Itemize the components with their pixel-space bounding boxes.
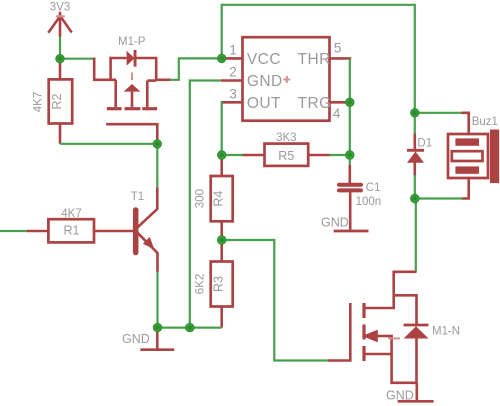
svg-text:300: 300: [195, 189, 207, 208]
resistor R4: [195, 155, 233, 240]
svg-text:100n: 100n: [356, 196, 382, 208]
node OUT-R4-R5 junction: [218, 151, 226, 159]
svg-text:4K7: 4K7: [33, 92, 45, 112]
gate bar: [106, 124, 157, 144]
resistor R2: [33, 59, 73, 144]
svg-text:M1-P: M1-P: [118, 36, 146, 48]
ground for M1-N: [386, 389, 434, 403]
wire OUT pin3 down: [220, 102, 223, 155]
drain path: [365, 272, 416, 308]
wire top rail VCC: [222, 5, 415, 113]
svg-text:C1: C1: [366, 182, 381, 194]
wire M1-P source elbow (red): [94, 58, 116, 80]
node A junction: [56, 55, 64, 63]
svg-text:TRG: TRG: [298, 95, 332, 112]
svg-text:D1: D1: [417, 137, 432, 149]
IC timer box: [221, 37, 351, 121]
svg-text:1: 1: [229, 43, 237, 58]
node D1 top junction: [411, 109, 419, 117]
wire R5 left: [222, 154, 243, 156]
wire bottom rail: [158, 327, 222, 329]
svg-text:4K7: 4K7: [61, 208, 81, 220]
svg-text:4: 4: [333, 106, 341, 121]
node D1 bottom junction: [411, 194, 419, 202]
gate bar: [328, 303, 351, 361]
supply 3V3 symbol: [48, 1, 71, 36]
svg-text:5: 5: [334, 41, 342, 56]
svg-text:6K2: 6K2: [195, 274, 207, 294]
svg-text:R5: R5: [278, 149, 294, 163]
svg-text:R4: R4: [211, 191, 225, 207]
diode D1: [407, 113, 432, 199]
pin 3: [221, 101, 243, 104]
buzzer Buz1: [415, 113, 499, 199]
channel plates: [362, 303, 365, 361]
svg-text:M1-N: M1-N: [432, 326, 460, 338]
svg-text:GND: GND: [122, 332, 150, 346]
wire T1 emitter to bottom rail: [156, 272, 158, 328]
svg-text:3: 3: [229, 86, 237, 101]
resistor R5: [243, 132, 330, 166]
wire 3V3 to node A: [59, 37, 61, 59]
node emitter-ground junction: [153, 323, 161, 331]
wire node B down to T1 collector: [156, 144, 158, 187]
ground for C1: [321, 215, 369, 231]
wire M1-P drain to pin1: [156, 79, 171, 82]
node R4-R3 junction: [218, 236, 226, 244]
wire D1 bottom node to M1-N drain: [415, 199, 417, 273]
svg-text:THR: THR: [298, 51, 331, 68]
pin 1: [221, 57, 243, 60]
svg-text:R1: R1: [64, 224, 80, 238]
svg-text:OUT: OUT: [247, 95, 281, 112]
svg-text:3K3: 3K3: [276, 132, 296, 144]
node gnd-rail junction: [186, 323, 194, 331]
resistor R3: [195, 240, 233, 328]
transistor T1: [131, 187, 158, 272]
origin dash: [388, 337, 400, 339]
mosfet M1-N: [328, 272, 460, 401]
body diode branch: [394, 295, 417, 324]
svg-text:R2: R2: [50, 93, 64, 109]
ground bottom-left: [122, 328, 174, 350]
node TRG junction: [346, 98, 354, 106]
svg-text:GND: GND: [386, 389, 414, 403]
wire R4-R3 node to M1-N gate: [222, 240, 328, 361]
top rail with body diode: [110, 57, 127, 60]
capacitor C1: [339, 155, 381, 230]
channel connectors: [114, 80, 117, 107]
svg-text:R3: R3: [211, 276, 225, 292]
wire GND pin2 to bottom rail: [190, 81, 221, 328]
node pin1 junction: [218, 54, 226, 62]
svg-text:GND: GND: [321, 215, 349, 229]
svg-text:2: 2: [229, 65, 237, 80]
pin 2: [221, 79, 243, 82]
svg-text:3V3: 3V3: [50, 1, 70, 13]
origin cross: [131, 73, 133, 81]
origin cross: [283, 76, 290, 83]
wire node A to M1-P source: [60, 58, 93, 60]
resistor R1: [0, 208, 134, 243]
pin 5: [330, 57, 352, 60]
wire THR-TRG vertical: [349, 58, 351, 155]
svg-text:GND: GND: [247, 73, 283, 90]
node THR-R5-C1 junction: [346, 151, 354, 159]
svg-text:VCC: VCC: [247, 51, 281, 68]
wire R2 bottom to node B: [60, 143, 157, 145]
svg-text:T1: T1: [131, 191, 144, 203]
mosfet M1-P: [106, 36, 157, 144]
bulk arrow: [124, 84, 141, 92]
wire R5 right: [329, 154, 350, 156]
svg-text:Buz1: Buz1: [472, 116, 498, 128]
pin 4: [330, 101, 352, 104]
source path: [365, 353, 392, 356]
node B junction: [153, 140, 161, 148]
channel plates: [107, 107, 157, 110]
bulk arrow: [362, 330, 378, 343]
